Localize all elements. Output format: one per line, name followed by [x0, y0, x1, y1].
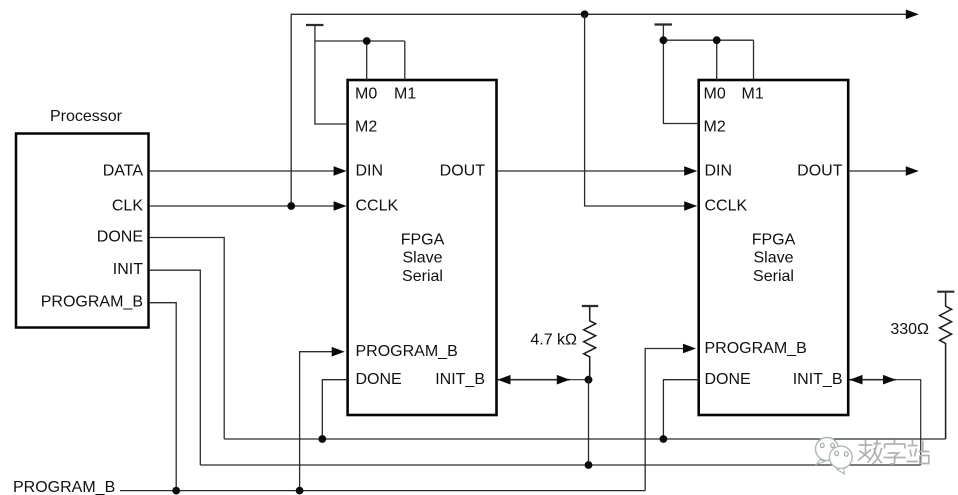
arrow: into U2 DIN: [684, 166, 697, 176]
svg-text:PROGRAM_B: PROGRAM_B: [356, 343, 458, 360]
svg-text:PROGRAM_B: PROGRAM_B: [41, 294, 143, 311]
svg-text:Serial: Serial: [402, 268, 443, 285]
watermark logo bubbles: [816, 438, 853, 475]
arrow: INIT_B into U2: [850, 375, 863, 385]
arrow: top rail to next device: [906, 10, 919, 20]
svg-text:FPGA: FPGA: [401, 232, 445, 249]
wire: U1 INIT_B bidirectional link: [498, 379, 571, 381]
svg-text:FPGA: FPGA: [752, 232, 796, 249]
svg-text:DONE: DONE: [97, 229, 143, 246]
arrow: INIT_B toward pull-up: [557, 375, 570, 385]
svg-text:330Ω: 330Ω: [890, 321, 929, 338]
svg-text:INIT_B: INIT_B: [435, 371, 485, 388]
svg-text:M2: M2: [704, 119, 726, 136]
node: U2 M0 junction: [713, 36, 721, 44]
svg-text:M0: M0: [704, 86, 726, 103]
arrow: INIT_B into U1: [498, 375, 511, 385]
svg-text:DOUT: DOUT: [797, 163, 843, 180]
svg-text:M0: M0: [355, 86, 377, 103]
arrow: U2 DOUT to next device: [906, 166, 919, 176]
wire: DONE rail: [224, 438, 945, 440]
VCC T-bar for R2: [937, 291, 954, 293]
node: DONE rail junction at U2: [660, 435, 668, 443]
svg-text:Slave: Slave: [753, 250, 793, 267]
wire: U2 PROGRAM_B from rail: [645, 349, 690, 491]
node: PROGRAM_B rail junction at processor: [172, 487, 180, 495]
svg-text:M2: M2: [355, 119, 377, 136]
svg-text:M1: M1: [742, 86, 764, 103]
FPGA U2 box: [699, 80, 849, 415]
svg-text:PROGRAM_B: PROGRAM_B: [13, 479, 115, 495]
watermark text: zhan: [907, 440, 930, 464]
svg-text:INIT_B: INIT_B: [793, 371, 843, 388]
wire: U2 M0/M1 horizontal: [663, 39, 753, 41]
wire: DATA to U1 DIN: [149, 170, 341, 172]
svg-text:Serial: Serial: [753, 268, 794, 285]
wire: U2 DOUT out: [849, 170, 907, 172]
svg-text:DONE: DONE: [705, 371, 751, 388]
wire: processor INIT down: [149, 270, 200, 465]
node: INIT rail junction: [585, 461, 593, 469]
arrow: INIT_B toward link: [883, 375, 896, 385]
svg-text:Slave: Slave: [402, 250, 442, 267]
wire: U2 M1 drop: [753, 40, 755, 80]
node: DONE rail junction at U1: [318, 435, 326, 443]
VCC T-bar for R1: [582, 305, 598, 307]
wire: U2 mode pin net: [663, 26, 698, 124]
wire: INIT rail: [200, 464, 920, 466]
node: CLK junction: [287, 202, 295, 210]
wire: CLK top rail (CCLK distribution): [291, 14, 906, 206]
svg-text:PROGRAM_B: PROGRAM_B: [705, 340, 807, 357]
svg-text:DATA: DATA: [103, 163, 144, 180]
wire: PROGRAM_B rail: [120, 490, 645, 492]
node: top rail junction to U2 CCLK: [581, 10, 589, 18]
wire: U1 DOUT to U2 DIN: [497, 170, 692, 172]
FPGA U1 box: [348, 80, 497, 415]
watermark text: zi: [884, 440, 906, 465]
wire: U1 DONE to rail: [322, 380, 347, 439]
wire: U2 DONE to rail: [663, 380, 698, 439]
wire: U1 M1 drop: [404, 41, 406, 80]
arrow: into U1 PROGRAM_B: [332, 347, 345, 357]
svg-text:DOUT: DOUT: [440, 163, 486, 180]
node: PROGRAM_B rail junction at U1: [296, 487, 304, 495]
wire: U1 PROGRAM_B from rail: [300, 352, 339, 491]
wire: U1 M0 drop: [366, 41, 368, 80]
node: INIT_B / R1 junction: [585, 376, 593, 384]
arrow: into U1 DIN: [334, 166, 347, 176]
VCC T-bar for U1 mode pins: [306, 24, 324, 26]
node: U1 M0 junction: [363, 37, 371, 45]
node: U2 mode T junction: [660, 36, 668, 44]
svg-text:CLK: CLK: [112, 198, 143, 215]
svg-text:Processor: Processor: [50, 108, 123, 125]
svg-text:M1: M1: [394, 86, 416, 103]
wire: U2 M0 drop: [716, 40, 718, 80]
resistor R1 4.7 kOhm pull-up: [584, 307, 596, 380]
svg-text:DONE: DONE: [356, 371, 402, 388]
watermark text: shu: [858, 440, 882, 464]
wire: CLK to U1 CCLK: [149, 205, 341, 207]
wire: CCLK to U2: [585, 14, 692, 206]
svg-text:DIN: DIN: [705, 163, 733, 180]
resistor R2 330 Ohm pull-up: [940, 293, 952, 439]
wire: U1 M0/M1 horizontal: [315, 40, 405, 42]
svg-text:CCLK: CCLK: [356, 198, 399, 215]
wire: processor PROGRAM_B down: [149, 303, 176, 491]
wire: U2 INIT_B bidirectional link: [850, 379, 897, 381]
svg-text:INIT: INIT: [113, 261, 143, 278]
wire: processor DONE down: [149, 238, 224, 440]
svg-text:CCLK: CCLK: [705, 198, 748, 215]
wire: INIT_B net down to INIT rail: [588, 380, 590, 465]
svg-text:4.7 kΩ: 4.7 kΩ: [530, 332, 577, 349]
wire: U1 mode pin net (M0 M1 M2 tied high): [315, 26, 348, 124]
VCC T-bar for U2 mode pins: [655, 23, 673, 25]
arrow: into U1 CCLK: [334, 201, 347, 211]
svg-text:DIN: DIN: [356, 163, 384, 180]
arrow: into U2 CCLK: [684, 201, 697, 211]
arrow: into U2 PROGRAM_B: [683, 344, 696, 354]
processor box: [16, 134, 149, 328]
